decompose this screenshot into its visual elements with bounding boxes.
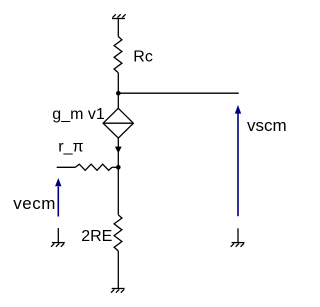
ground (left, below vecm arrow) [51, 228, 65, 247]
resistor 2RE [114, 215, 122, 251]
voltage arrow vscm [235, 105, 241, 216]
voltage arrow vecm [55, 178, 61, 217]
wire node B to 2RE [117, 167, 119, 215]
wire right lead of r_pi to node B [112, 166, 118, 168]
wire node A to right (output net) [118, 92, 239, 94]
svg-text:Rc: Rc [133, 49, 153, 66]
svg-text:vscm: vscm [247, 116, 287, 135]
node B (junction dot) [116, 165, 121, 170]
ground (bottom center) [111, 289, 125, 293]
current direction arrowhead [115, 147, 121, 153]
resistor Rc [114, 37, 122, 73]
svg-text:g_m v1: g_m v1 [52, 106, 105, 123]
node A (junction dot) [116, 91, 121, 96]
wire node A to current source [117, 93, 119, 108]
ground (right, below vscm arrow) [231, 228, 245, 247]
controlled current source U1 (diamond) [103, 108, 133, 138]
supply rail symbol (top, hatched bar) [112, 14, 126, 18]
svg-text:vecm: vecm [13, 194, 56, 213]
wire rail to Rc [117, 19, 119, 37]
wire 2RE to ground [117, 251, 119, 289]
wire left lead of r_pi [57, 166, 76, 168]
resistor r_pi [75, 164, 112, 170]
wire Rc to node A [117, 73, 119, 94]
svg-text:2RE: 2RE [81, 228, 112, 245]
wire current source to node B [117, 138, 119, 167]
svg-text:r_π: r_π [58, 139, 83, 156]
